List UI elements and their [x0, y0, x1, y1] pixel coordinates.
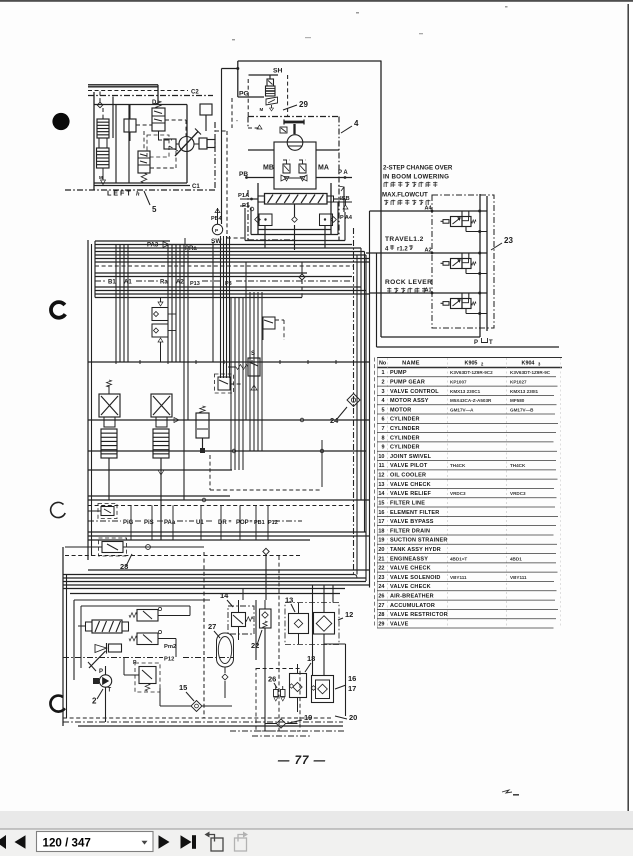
motor 4 pilot valve small — [248, 125, 287, 133]
pilot feed wires down — [131, 500, 268, 540]
svg-text:17: 17 — [348, 684, 356, 693]
callout 5 — [144, 191, 157, 214]
svg-text:L E F T: L E F T — [107, 189, 131, 198]
svg-text:P1A: P1A — [238, 193, 250, 199]
travel valve pilot box right — [320, 214, 337, 226]
junction diamond node — [299, 262, 305, 298]
svg-text:C1: C1 — [192, 184, 200, 190]
svg-text:P: P — [474, 340, 478, 346]
table row 13 VALVE CHECK — [377, 482, 554, 489]
P1 port dash line — [240, 203, 254, 211]
table row 5 MOTOR — [377, 407, 555, 414]
LEFT label — [107, 189, 140, 198]
svg-text:VALVE PILOT: VALVE PILOT — [390, 463, 428, 469]
svg-text:MA: MA — [318, 165, 329, 172]
svg-text:TH4CK: TH4CK — [450, 463, 466, 468]
check valve 24 — [330, 394, 360, 426]
annotation travel 1.2 — [385, 236, 424, 253]
relief valve near pump 2 — [124, 658, 160, 693]
table row 4 MOTOR ASSY — [377, 398, 557, 405]
svg-text:ISB: ISB — [340, 196, 350, 202]
motor 4 circle — [287, 135, 303, 151]
table row 18 FILTER DRAIN — [377, 528, 554, 535]
parts table header — [379, 361, 541, 367]
svg-text:29: 29 — [299, 100, 308, 109]
solenoid valve 23 unit A2 — [425, 248, 487, 276]
PA4 port — [340, 199, 353, 221]
binder hole 1 — [52, 113, 69, 130]
PB port line — [239, 171, 274, 179]
bus C horizontal wires — [88, 496, 370, 540]
svg-text:CYLINDER: CYLINDER — [390, 417, 420, 423]
svg-text:K905: K905 — [465, 361, 478, 367]
svg-text:VRDC3: VRDC3 — [450, 491, 466, 496]
element filter 16 / bypass 17 — [311, 674, 356, 703]
vertical wire right of block 4 — [380, 61, 382, 338]
svg-text:15: 15 — [179, 683, 187, 692]
svg-text:KMX13 230C1: KMX13 230C1 — [450, 389, 481, 394]
svg-text:14: 14 — [378, 491, 385, 497]
svg-text:ROCK LEVER: ROCK LEVER — [385, 279, 432, 286]
filter line 15 — [160, 683, 232, 712]
travel valve pilot box left — [255, 214, 272, 226]
binder hole 2 — [51, 302, 65, 318]
motor assy 4 dash-dot enclosure — [248, 117, 339, 241]
svg-text:KP1007: KP1007 — [450, 380, 467, 385]
svg-text:PUMP GEAR: PUMP GEAR — [390, 380, 425, 386]
svg-text:MB: MB — [263, 165, 274, 172]
solenoid valve 29 (SH/PG) — [236, 61, 287, 116]
svg-text:21: 21 — [378, 556, 384, 562]
svg-text:P: P — [99, 669, 103, 675]
hydraulic tank dashed enclosure — [230, 669, 345, 737]
svg-text:— 77 —: — 77 — — [277, 755, 326, 767]
double check valve component — [152, 298, 176, 363]
svg-text:18: 18 — [378, 528, 384, 534]
svg-text:VALVE RELIEF: VALVE RELIEF — [390, 491, 431, 497]
svg-text:SUCTION STRAINER: SUCTION STRAINER — [390, 538, 448, 544]
svg-text:16: 16 — [378, 510, 384, 516]
toolbar prev-page button — [15, 835, 26, 849]
svg-text:5: 5 — [152, 205, 157, 214]
svg-text:MOTOR: MOTOR — [390, 407, 411, 413]
table row 9 CYLINDER — [377, 445, 557, 452]
table row 28 VALVE RESTRICTOR — [377, 612, 556, 619]
svg-text:VALVE CHECK: VALVE CHECK — [390, 482, 431, 488]
svg-text:1: 1 — [381, 370, 384, 376]
vertical wire bundle 4 (to SW) — [213, 236, 230, 378]
valve check 22 — [251, 600, 271, 731]
svg-text:MF580: MF580 — [510, 398, 525, 403]
scan specks — [232, 39, 235, 40]
svg-text:19: 19 — [304, 713, 312, 722]
svg-text:12: 12 — [345, 610, 353, 619]
table row 21 ENGINEASSY — [377, 556, 556, 563]
vertical wire bundle 2 — [168, 245, 180, 363]
bottom-left frame wires — [63, 547, 300, 726]
pilot reducing valve b — [129, 630, 176, 657]
svg-text:AIR-BREATHER: AIR-BREATHER — [390, 593, 434, 599]
annotation rock lever — [385, 279, 432, 293]
svg-text:18: 18 — [307, 654, 315, 663]
valve check 13 — [285, 596, 309, 645]
svg-text:Pm2: Pm2 — [164, 644, 176, 650]
pilot valve D — [152, 100, 165, 140]
annotation 2-step change over — [382, 165, 453, 206]
pump assembly 5 (LEFT) outline — [88, 85, 190, 190]
svg-text:PA3: PA3 — [147, 243, 159, 249]
vertical wire bundle 3 — [184, 245, 188, 501]
svg-text:S: S — [251, 351, 255, 357]
motor 4 valve block — [248, 142, 339, 189]
vertical wire bundle 1 — [116, 245, 128, 363]
svg-text:23: 23 — [378, 575, 384, 581]
svg-text:GM17V—A: GM17V—A — [450, 407, 474, 412]
svg-text:27: 27 — [208, 622, 216, 631]
svg-text:h: h — [136, 191, 140, 198]
bottom boundary wires — [63, 552, 343, 726]
svg-text:M: M — [99, 175, 103, 180]
svg-text:3: 3 — [381, 389, 384, 395]
svg-text:D: D — [152, 100, 157, 106]
table row 29 VALVE — [377, 621, 554, 628]
svg-text:U1: U1 — [196, 520, 204, 526]
svg-text:29: 29 — [378, 621, 384, 627]
drain wires bottom right — [239, 556, 334, 731]
svg-text:PB4: PB4 — [211, 216, 223, 222]
svg-text:Ra: Ra — [160, 280, 168, 286]
table row 7 CYLINDER — [377, 426, 556, 433]
nested loop verticals — [231, 262, 262, 470]
svg-text:20: 20 — [349, 713, 357, 722]
Pm2 P12 port labels — [63, 644, 233, 663]
node junction top-left — [97, 92, 103, 108]
oil cooler 12 — [285, 585, 353, 676]
svg-text:POP: POP — [236, 520, 249, 526]
table row 27 ACCUMULATOR — [377, 603, 558, 610]
svg-text:26: 26 — [378, 593, 384, 599]
block 4 outer frame lines — [245, 186, 345, 250]
pilot manifold small component — [88, 504, 117, 519]
small pilot component — [263, 317, 284, 340]
svg-text:PG: PG — [239, 91, 249, 98]
svg-text:IN BOOM LOWERING: IN BOOM LOWERING — [383, 174, 449, 181]
svg-text:KP1027: KP1027 — [510, 380, 527, 385]
svg-text:M5X43CA-Z-A503R: M5X43CA-Z-A503R — [450, 398, 492, 403]
svg-text:15: 15 — [378, 500, 384, 506]
svg-text:TH4CK: TH4CK — [510, 463, 526, 468]
main pump 1 circle with swash — [164, 129, 215, 157]
page right edge — [627, 4, 629, 811]
pilot pump 2 — [92, 666, 112, 722]
svg-text:28: 28 — [378, 612, 384, 618]
mid bus wires — [88, 240, 370, 560]
svg-text:ACCUMULATOR: ACCUMULATOR — [390, 603, 435, 609]
table row 16 ELEMENT FILTER — [377, 510, 558, 517]
main control valve X stack 1 — [99, 380, 120, 500]
svg-text:ENGINEASSY: ENGINEASSY — [390, 556, 428, 562]
svg-text:17: 17 — [378, 519, 384, 525]
table row 3 VALVE CONTROL — [377, 389, 554, 396]
callout 23 — [491, 236, 513, 250]
svg-text:9: 9 — [381, 445, 384, 451]
viewer background strip — [0, 811, 633, 829]
table row 8 CYLINDER — [377, 435, 554, 442]
pilot valve assembly frame — [74, 600, 210, 680]
svg-text:K904: K904 — [522, 361, 535, 367]
pump 5 regulator spring stack — [97, 108, 110, 185]
pilot reducing valve a — [129, 606, 190, 621]
bus C port labels — [88, 519, 302, 526]
svg-text:No: No — [379, 361, 387, 367]
solenoid valve 23 unit A4 — [425, 206, 487, 234]
svg-text:13: 13 — [285, 596, 293, 605]
svg-text:CYLINDER: CYLINDER — [390, 445, 420, 451]
svg-text:P A4: P A4 — [340, 215, 353, 221]
svg-text:PiG: PiG — [123, 520, 134, 526]
callout 4 — [341, 119, 359, 133]
table row 17 VALVE BYPASS — [377, 519, 556, 526]
svg-text:KMX13 230I1: KMX13 230I1 — [510, 389, 539, 394]
svg-text:CYLINDER: CYLINDER — [390, 426, 420, 432]
callout 29 — [283, 100, 308, 110]
table row 14 VALVE RELIEF — [377, 491, 557, 498]
main control valve X stack 2 — [151, 394, 172, 540]
svg-text:27: 27 — [378, 603, 384, 609]
svg-text:VBY111: VBY111 — [450, 575, 467, 580]
svg-text:VALVE CHECK: VALVE CHECK — [390, 566, 431, 572]
svg-text:26: 26 — [268, 675, 276, 684]
travel spool valve 3 — [251, 183, 344, 234]
svg-text:GM17V—B: GM17V—B — [510, 407, 534, 412]
table row 1 PUMP — [377, 370, 556, 377]
filter drain 18 — [289, 654, 315, 712]
table row 24 VALVE CHECK — [377, 584, 557, 591]
svg-text:16: 16 — [348, 674, 356, 683]
svg-text:PAa: PAa — [164, 520, 176, 526]
center drain diamond — [292, 204, 298, 222]
ISB port — [334, 196, 352, 202]
bus D right corners — [354, 575, 357, 579]
table row 20 TANK ASSY HYDR — [377, 547, 556, 554]
solenoid valve 23 unit A1 — [425, 288, 487, 316]
table row 22 VALVE CHECK — [377, 566, 558, 573]
accumulator 27 — [208, 622, 234, 698]
svg-text:7: 7 — [381, 426, 384, 432]
solenoid block 23 dash-dot enclosure — [432, 195, 494, 328]
svg-text:VRDC3: VRDC3 — [510, 491, 526, 496]
P1A port — [238, 193, 253, 200]
svg-text:19: 19 — [378, 538, 384, 544]
svg-text:23: 23 — [504, 236, 513, 245]
binder hole 4 — [50, 696, 64, 712]
svg-text:VALVE BYPASS: VALVE BYPASS — [390, 519, 434, 525]
svg-text:MOTOR ASSY: MOTOR ASSY — [390, 398, 429, 404]
svg-text:P12: P12 — [164, 657, 174, 663]
toolbar next-view button (disabled) — [235, 838, 247, 851]
svg-text:12: 12 — [378, 473, 384, 479]
dashed pilot component right — [215, 374, 243, 393]
svg-text:PRa: PRa — [185, 246, 197, 252]
corridor vertical wires — [354, 211, 370, 588]
pump 5 dashed pilot links — [136, 120, 186, 168]
svg-text:10: 10 — [378, 454, 384, 460]
check node on drain riser — [263, 548, 269, 600]
svg-text:VALVE RESTRICTOR: VALVE RESTRICTOR — [390, 612, 448, 618]
binder hole 3 — [51, 502, 66, 517]
svg-text:2: 2 — [381, 380, 384, 386]
block 23 bottom wires — [377, 253, 560, 347]
table row 6 CYLINDER — [377, 417, 558, 424]
pressure switch SW — [211, 208, 223, 245]
pump 5 lower control valve — [138, 151, 150, 183]
svg-text:MAX.FLOWCUT: MAX.FLOWCUT — [382, 192, 428, 199]
toolbar first-page button — [0, 835, 6, 849]
motor 4 tee handle — [284, 120, 304, 135]
svg-text:TANK ASSY HYDR: TANK ASSY HYDR — [390, 547, 441, 553]
svg-text:4BD1: 4BD1 — [510, 556, 522, 561]
svg-text:K3V63DT-1Z9R-9C2: K3V63DT-1Z9R-9C2 — [450, 370, 493, 375]
svg-text:120 / 347: 120 / 347 — [43, 836, 91, 849]
table row 23 VALVE SOLENOID — [377, 575, 554, 582]
window top border — [0, 0, 633, 2]
pump 5 dash-dot enclosure C1/C2 — [65, 90, 215, 191]
pump 5 internal verticals — [113, 97, 129, 184]
bus A horizontal wires — [95, 241, 370, 298]
svg-text:T: T — [489, 340, 493, 346]
table row 10 JOINT SWIVEL — [377, 454, 556, 461]
svg-text:T: T — [108, 688, 112, 694]
svg-text:5: 5 — [381, 407, 384, 413]
svg-text:VBY111: VBY111 — [510, 575, 527, 580]
solenoid block 23 rails — [440, 194, 487, 337]
top wire to block 4 — [238, 60, 381, 62]
check valves in block 4 — [281, 175, 307, 181]
table row 19 SUCTION STRAINER — [377, 538, 557, 545]
tank 20 — [324, 644, 357, 722]
svg-text:4: 4 — [354, 119, 359, 128]
suction strainer 19 — [265, 713, 312, 728]
svg-text:P13: P13 — [190, 281, 200, 287]
table row 26 AIR-BREATHER — [377, 593, 555, 600]
svg-text:TRAVEL1.2: TRAVEL1.2 — [385, 236, 424, 243]
svg-text:M: M — [260, 107, 264, 112]
svg-text:K3V63DT-1Z9R-9C: K3V63DT-1Z9R-9C — [510, 370, 551, 375]
svg-text:20: 20 — [378, 547, 384, 553]
svg-text:VALVE CONTROL: VALVE CONTROL — [390, 389, 439, 395]
svg-text:B1: B1 — [108, 280, 116, 286]
svg-text:NAME: NAME — [402, 361, 420, 367]
svg-text:ELEMENT FILTER: ELEMENT FILTER — [390, 510, 439, 516]
svg-text:C2: C2 — [191, 90, 199, 96]
table row 11 VALVE PILOT — [377, 463, 556, 470]
air breather 26 — [268, 675, 285, 702]
relief valve S (center) — [228, 351, 260, 390]
svg-text:P A: P A — [338, 170, 348, 176]
svg-text:CYLINDER: CYLINDER — [390, 435, 420, 441]
svg-text:SH: SH — [273, 68, 283, 75]
svg-text:11: 11 — [379, 463, 385, 469]
page number 77 — [277, 755, 326, 767]
svg-text:DR: DR — [218, 520, 227, 526]
valve restrictor 28 — [65, 538, 204, 571]
svg-text:2-STEP CHANGE OVER: 2-STEP CHANGE OVER — [383, 165, 453, 172]
svg-text:4BD1=T: 4BD1=T — [450, 556, 467, 561]
svg-text:22: 22 — [378, 566, 384, 572]
block 23 P and T ports — [474, 338, 493, 346]
PA3 pilot wire — [147, 238, 197, 252]
wires pump block to center — [215, 69, 246, 239]
svg-text:OIL COOLER: OIL COOLER — [390, 473, 426, 479]
table row 15 FILTER LINE — [377, 500, 555, 507]
wires into block 23 — [366, 211, 432, 293]
svg-text:VALVE: VALVE — [390, 621, 409, 627]
pump 5 connector box — [124, 105, 136, 141]
remote control valve spool — [78, 620, 129, 633]
toolbar — [0, 829, 633, 856]
svg-text:FILTER DRAIN: FILTER DRAIN — [390, 528, 430, 534]
svg-text:PUMP: PUMP — [390, 370, 407, 376]
remote control lever — [88, 643, 122, 671]
svg-text:r1.2: r1.2 — [397, 247, 408, 253]
svg-text:=: = — [250, 519, 253, 525]
table row 2 PUMP GEAR — [377, 380, 558, 387]
svg-text:VALVE CHECK: VALVE CHECK — [390, 584, 431, 590]
svg-text:14: 14 — [220, 591, 229, 600]
toolbar previous-view button — [211, 838, 223, 851]
relief valve component right — [174, 406, 209, 453]
svg-text:6: 6 — [381, 417, 384, 423]
svg-text:VALVE SOLENOID: VALVE SOLENOID — [390, 575, 441, 581]
parts table frame — [375, 358, 563, 629]
svg-text:13: 13 — [378, 482, 384, 488]
svg-text:JOINT SWIVEL: JOINT SWIVEL — [390, 454, 432, 460]
svg-text:2: 2 — [92, 697, 97, 706]
toolbar next-page button — [159, 835, 170, 849]
bus A port labels — [95, 280, 352, 288]
motor 4 solenoid a — [283, 160, 290, 181]
table row 12 OIL COOLER — [377, 473, 558, 480]
svg-text:=: = — [229, 519, 232, 525]
svg-text:8: 8 — [381, 435, 384, 441]
toolbar page input 120 / 347 — [37, 832, 154, 852]
svg-text:24: 24 — [378, 584, 385, 590]
svg-text:FILTER LINE: FILTER LINE — [390, 500, 425, 506]
pump 5 port box top-right — [200, 104, 212, 131]
valve relief 14 — [220, 591, 254, 634]
scan smudge bottom right — [502, 790, 519, 796]
toolbar last-page button — [181, 835, 192, 849]
bus D horizontal wires — [63, 570, 370, 594]
motor 4 solenoid b — [299, 160, 306, 181]
PA port line — [316, 170, 352, 179]
